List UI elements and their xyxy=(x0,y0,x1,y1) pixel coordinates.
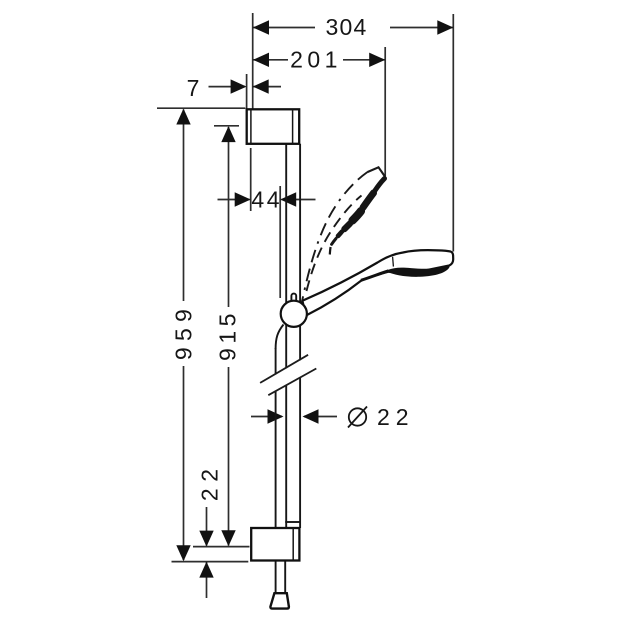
svg-text:304: 304 xyxy=(326,14,368,40)
svg-text:22: 22 xyxy=(377,404,415,430)
svg-text:7: 7 xyxy=(187,75,201,101)
svg-text:22: 22 xyxy=(197,463,223,502)
svg-text:44: 44 xyxy=(251,186,282,212)
svg-text:959: 959 xyxy=(170,303,196,360)
svg-text:201: 201 xyxy=(290,47,342,73)
svg-text:915: 915 xyxy=(214,309,240,361)
